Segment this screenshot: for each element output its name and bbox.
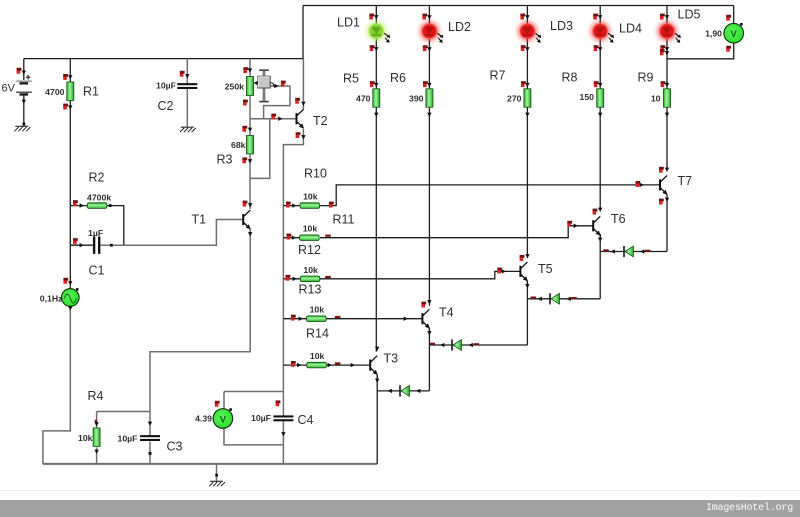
transistor T4 (422, 309, 429, 328)
wire: R2 left lead (70, 205, 87, 207)
wire: pot wiper route (264, 86, 290, 119)
current arrow: LED anode (427, 15, 431, 19)
current arrow: battery - (22, 100, 26, 104)
current arrow: R bottom (427, 113, 431, 117)
terminal marker: R top (423, 81, 428, 87)
current arrow: LD5 node (665, 51, 669, 55)
terminal marker: C4 top (276, 400, 281, 406)
resistor R12 10k (300, 276, 319, 282)
svg-text:10µF: 10µF (251, 413, 271, 423)
current arrow: R bottom (525, 113, 529, 117)
wire: C2 to ground (186, 89, 188, 127)
terminal marker: T2 collector (295, 98, 300, 104)
terminal dash: R14 right (335, 362, 341, 364)
current arrow: T3 emitter (375, 379, 379, 383)
terminal marker: LED anode (660, 14, 665, 20)
resistor R4 10k (93, 428, 100, 446)
svg-text:LD2: LD2 (448, 20, 471, 34)
current arrow: T2 collector (301, 102, 305, 106)
current arrow: T6 base (574, 224, 578, 228)
svg-text:V: V (220, 414, 227, 425)
svg-text:T3: T3 (384, 352, 399, 366)
current arrow: source bottom (68, 306, 72, 310)
junction dot: C3 bottom (149, 452, 152, 455)
current arrow: T2 base (278, 117, 282, 121)
svg-text:250k: 250k (225, 82, 244, 92)
svg-text:10k: 10k (303, 224, 318, 234)
svg-text:68k: 68k (231, 140, 246, 150)
terminal marker: pot bottom (243, 100, 248, 106)
wire: D3 row (527, 298, 600, 300)
LED LD2 (419, 21, 443, 43)
terminal marker: voltmeter top (215, 401, 220, 407)
terminal marker: R1 bottom (63, 104, 68, 110)
current arrow: D2 left (440, 343, 444, 347)
current arrow: LED anode (665, 15, 669, 19)
resistor R2 4700k (87, 203, 106, 209)
transistor T2 symbol (297, 109, 304, 128)
current arrow: D3 right (567, 297, 571, 301)
wire: R4/C3 top link (97, 411, 150, 413)
capacitor C1 plates (93, 237, 101, 254)
svg-text:10: 10 (651, 94, 661, 104)
current arrow: LED cathode (427, 47, 431, 51)
terminal marker: T6 collector (593, 209, 598, 215)
wire: T2 emitter to ladder feed (283, 129, 303, 416)
terminal marker: R1 top (63, 74, 68, 80)
terminal marker: LED cathode (423, 45, 428, 51)
wire: LED anode lead (428, 6, 430, 24)
current arrow: R3 bottom (248, 159, 252, 163)
wire: LED anode rail (303, 5, 734, 7)
wire: R12 to T5 base (320, 271, 520, 278)
svg-text:R13: R13 (299, 283, 322, 297)
LED LD3 (517, 21, 541, 43)
terminal dash: D4 right (645, 250, 651, 252)
terminal marker: T7 collector (659, 167, 664, 173)
wire: T2 collector drop (302, 59, 304, 110)
svg-text:R8: R8 (562, 71, 578, 85)
current arrow: T6 emitter (598, 238, 602, 242)
terminal marker: R14 left (291, 361, 296, 367)
current arrow: R12 left (293, 277, 297, 281)
current arrow: D3 left (538, 297, 542, 301)
svg-text:4.39: 4.39 (195, 414, 212, 424)
wire: C3 top lead (149, 412, 151, 436)
terminal dash: R12 right (325, 276, 331, 278)
terminal marker: LED cathode (594, 45, 599, 51)
wire: R to transistor collector (599, 107, 601, 209)
terminal marker: R top (594, 81, 599, 87)
transistor T1 symbol (243, 210, 250, 229)
wire: C1 left lead (70, 244, 93, 246)
svg-text:T2: T2 (313, 114, 328, 128)
svg-text:10k: 10k (303, 265, 318, 275)
current arrow: R top (525, 83, 529, 87)
resistor R1 4700 (67, 82, 74, 100)
wire: R10 to T7 base (320, 185, 660, 206)
wire: T1 emitter to R4/C3 node (150, 229, 250, 412)
voltmeter circle 1.90 (724, 23, 744, 43)
current arrow: D4 left (611, 249, 615, 253)
wire: R to transistor collector (428, 107, 430, 306)
wire: C1 to T1 base (101, 220, 243, 246)
terminal dash: R13 right (335, 316, 341, 318)
terminal marker: R3 bottom (242, 157, 247, 163)
current arrow: T1 collector (248, 203, 252, 207)
terminal marker: LED anode (520, 14, 525, 20)
terminal marker: R11 left (287, 234, 292, 240)
current arrow: T4 collector (427, 300, 431, 304)
svg-text:R11: R11 (333, 213, 355, 227)
terminal dash: R11 right (325, 235, 331, 237)
current arrow: T3 base (351, 363, 355, 367)
wire: T5 emitter drop (526, 281, 528, 345)
LED LD1 (green) (366, 21, 390, 43)
transistor T7 (660, 176, 667, 195)
LED LD4 (590, 21, 614, 43)
current arrow: D1 right (416, 389, 420, 393)
svg-text:R10: R10 (304, 167, 327, 181)
wire: T2 base (250, 118, 297, 120)
current arrow: R14 left (297, 363, 301, 367)
wire: LED anode lead (666, 6, 668, 24)
terminal marker: voltmeter1 top (726, 15, 731, 21)
wire: R14 left lead (283, 364, 306, 366)
svg-text:R4: R4 (88, 389, 104, 403)
wire: battery to ground (23, 94, 25, 127)
terminal marker: R3 top (242, 126, 247, 132)
svg-text:T1: T1 (192, 213, 207, 227)
terminal marker: R13 left (291, 315, 296, 321)
svg-text:T7: T7 (678, 174, 693, 188)
wire: LED cathode to R (599, 39, 601, 89)
resistor R7 270 (524, 89, 531, 107)
current arrow: source top (68, 281, 72, 285)
capacitor C2 plates (177, 83, 197, 89)
diode D1 (400, 385, 409, 396)
current arrow: T1 emitter (248, 232, 252, 236)
transistor T5 (520, 262, 527, 281)
terminal marker: battery + (17, 68, 22, 74)
svg-text:C1: C1 (89, 264, 105, 278)
current arrow: R top (427, 83, 431, 87)
current arrow: T2 emitter (301, 135, 305, 139)
wire: R14 to T3 base (325, 364, 369, 366)
current arrow: R top (374, 83, 378, 87)
terminal marker: LED anode (422, 14, 427, 20)
terminal marker: LED anode (593, 14, 598, 20)
terminal marker: T1 collector (243, 201, 248, 207)
wire: voltmeter loop top (224, 391, 283, 393)
svg-text:T6: T6 (611, 212, 626, 226)
resistor R5 470 (373, 89, 380, 107)
wire: R11 to T6 base (320, 226, 593, 238)
terminal marker: LED cathode (521, 45, 526, 51)
current arrow: R1 top (68, 75, 72, 79)
current arrow: R bottom (598, 113, 602, 117)
current arrow: T3 collector (375, 347, 379, 351)
resistor R6 390 (426, 89, 433, 107)
svg-text:R14: R14 (306, 327, 329, 341)
svg-text:10k: 10k (78, 433, 93, 443)
wire: +6V rail (24, 58, 303, 60)
wire: base-to-R3-bottom drop (250, 119, 270, 179)
wire: source to bottom rail (43, 306, 70, 464)
current arrow: battery (22, 71, 26, 75)
current arrow: LED anode (374, 15, 378, 19)
current arrow: LED anode (525, 15, 529, 19)
terminal marker: C1 left (73, 238, 78, 244)
terminal marker: T4 collector (421, 302, 426, 308)
svg-text:6V: 6V (2, 83, 16, 95)
transistor T3 (370, 356, 377, 375)
terminal marker: LED cathode (370, 45, 375, 51)
wire: R to transistor collector (375, 107, 377, 351)
svg-text:LD3: LD3 (550, 19, 573, 33)
current arrow: R top (598, 83, 602, 87)
current arrow: T5 base (502, 269, 506, 273)
wire: LED anode lead (599, 6, 601, 24)
capacitor C4 plates (273, 415, 293, 421)
wire: R10 left lead (283, 205, 300, 207)
current arrow: R4 bottom (94, 450, 98, 454)
terminal dash: D2 right (474, 343, 480, 345)
svg-text:R9: R9 (638, 71, 654, 85)
current arrow: LED cathode (665, 47, 669, 51)
source circle (62, 288, 80, 306)
current arrow: T7 base (640, 183, 644, 187)
capacitor C3 plates (140, 435, 160, 441)
terminal marker: R10 left (286, 202, 291, 208)
svg-text:C3: C3 (167, 440, 183, 454)
diode D3 (550, 293, 559, 304)
current arrow: T4 base (404, 317, 408, 321)
wire: pot bottom to base node (249, 96, 251, 119)
current arrow: R10 left (292, 203, 296, 207)
terminal marker: pot wiper (281, 81, 286, 87)
current arrow: LED cathode (374, 47, 378, 51)
wire: D4 row (600, 251, 667, 253)
terminal marker: T7 base (636, 181, 641, 187)
wire: T4 emitter lead (428, 328, 430, 332)
wire: T6 emitter drop (599, 234, 601, 299)
wire: node to R3 (249, 119, 251, 136)
terminal marker: T2 emitter (296, 132, 301, 138)
wire: voltmeter top lead (733, 6, 735, 25)
svg-text:LD4: LD4 (619, 22, 642, 36)
terminal marker: R top (521, 81, 526, 87)
wire: LED cathode to R (526, 39, 528, 89)
svg-text:T5: T5 (538, 262, 553, 276)
current arrow: R13 left (299, 317, 303, 321)
resistor R11 10k (300, 235, 319, 241)
wire: C4 to bottom rail (282, 421, 284, 464)
terminal dash: D4 left (603, 249, 609, 251)
current arrow: LED cathode (598, 47, 602, 51)
svg-text:270: 270 (507, 94, 522, 104)
diode D4 (624, 246, 633, 257)
terminal marker: pot top (243, 67, 248, 73)
svg-text:10k: 10k (310, 351, 325, 361)
wire: R to transistor collector (666, 107, 668, 169)
svg-text:4700k: 4700k (87, 193, 111, 203)
terminal marker: T6 base jog (567, 221, 572, 227)
LED LD5 (657, 21, 681, 43)
current arrow: C3 top (148, 422, 152, 426)
current arrow: T4 emitter (427, 331, 431, 335)
current arrow: C1 left (80, 243, 84, 247)
wire: R2 right to C1 node (106, 206, 123, 246)
junction dot: ground stem (215, 474, 218, 477)
wire: R4 top lead (96, 412, 98, 429)
svg-text:150: 150 (580, 92, 595, 102)
svg-text:390: 390 (409, 94, 424, 104)
terminal marker: voltmeter1 bottom (726, 46, 731, 52)
wiper arrow of P1 (into body) (254, 81, 258, 85)
current arrow: T5 collector (525, 254, 529, 258)
ground symbol: main (209, 481, 225, 486)
svg-text:C2: C2 (158, 99, 174, 113)
current arrow: LED anode (598, 15, 602, 19)
terminal marker: T5 collector (520, 255, 525, 261)
junction dot: battery-ground (23, 123, 26, 126)
terminal marker: LED cathode (660, 45, 665, 51)
wire: LED anode lead (375, 6, 377, 24)
wire: R12 left lead (283, 278, 300, 280)
wire: D2 row (429, 344, 527, 346)
svg-text:C4: C4 (298, 413, 314, 427)
diode D2 (452, 339, 461, 350)
wire: voltmeter bottom to LD5 (667, 43, 734, 59)
svg-text:R7: R7 (490, 69, 506, 83)
wire: LED cathode to R (428, 39, 430, 89)
svg-text:R2: R2 (89, 171, 105, 185)
terminal marker: T7 emitter (659, 199, 664, 205)
current arrow: T5 emitter (525, 284, 529, 288)
wire: voltmeter top lead (223, 392, 225, 409)
wire: bottom rail (43, 463, 377, 465)
wire: LED anode lead (526, 6, 528, 24)
resistor R13 10k (307, 316, 326, 322)
terminal dash: D3 right (571, 297, 577, 299)
svg-text:LD5: LD5 (678, 8, 701, 22)
terminal dot: R4 top (95, 420, 98, 423)
resistor R10 10k (300, 203, 319, 209)
svg-text:R5: R5 (343, 72, 359, 86)
svg-text:0,1Hz: 0,1Hz (40, 294, 63, 304)
current arrow: R4 top (94, 422, 98, 426)
junction dot: C1 right (110, 244, 113, 247)
wire: rail to R1 (69, 59, 71, 82)
svg-text:10µF: 10µF (118, 434, 138, 444)
resistor R9 10 (664, 89, 671, 107)
terminal marker: LD5 node (660, 49, 665, 55)
current arrow: C4 bottom (281, 432, 285, 436)
resistor R14 10k (307, 362, 326, 368)
svg-text:R1: R1 (83, 85, 99, 99)
transistor T6 (593, 216, 600, 235)
ground: C2 (180, 127, 196, 132)
terminal marker: R2 left (73, 200, 78, 206)
terminal marker: T5 base jog (497, 268, 502, 274)
wire: T5 emitter lead (526, 281, 528, 285)
wire: T3 emitter lead (376, 375, 378, 380)
resistor R8 150 (597, 89, 604, 107)
current arrow: D2 right (469, 343, 473, 347)
terminal marker: T2 base (271, 114, 276, 120)
terminal dash: D2 left (430, 343, 436, 345)
terminal marker: LED anode (369, 14, 374, 20)
svg-text:10k: 10k (310, 305, 325, 315)
svg-text:470: 470 (356, 94, 371, 104)
current arrow: T6 collector (598, 208, 602, 212)
wire: battery top lead (23, 59, 25, 80)
resistor R3 68k (247, 136, 254, 154)
wire: T3 emitter to bottom rail (376, 375, 378, 464)
current arrow: R3 top (248, 128, 252, 132)
voltmeter circle 4.39 (213, 408, 233, 428)
svg-text:LD1: LD1 (337, 16, 360, 30)
svg-text:T4: T4 (439, 306, 454, 320)
wire: box left edge (302, 6, 304, 60)
svg-text:1,90: 1,90 (705, 29, 722, 39)
current arrow: R11 left (292, 236, 296, 240)
terminal marker: R top (370, 81, 375, 87)
wire: T7 emitter drop (666, 194, 668, 252)
wire: R13 to T4 base (326, 318, 422, 320)
wire: rail to pot (249, 59, 251, 77)
svg-text:10k: 10k (303, 192, 318, 202)
wire: R to transistor collector (526, 107, 528, 256)
svg-text:R12: R12 (298, 243, 321, 257)
terminal marker: C2 top (180, 71, 185, 77)
wire: C3 bottom lead (149, 442, 151, 464)
terminal marker: R12 left (286, 275, 291, 281)
junction dot: R2 right (109, 204, 112, 207)
wire: LED cathode to R (666, 39, 668, 89)
svg-text:R6: R6 (390, 71, 406, 85)
current arrow: pot top (248, 68, 252, 72)
current arrow: LED cathode (525, 47, 529, 51)
current arrow: T7 emitter (665, 198, 669, 202)
current arrow: C2 (185, 74, 189, 78)
current arrow: R1 bottom (68, 105, 72, 109)
svg-text:4700: 4700 (45, 87, 64, 97)
current arrow: D4 right (640, 249, 644, 253)
terminal marker: R top (661, 81, 666, 87)
terminal marker: R10 right (329, 202, 334, 208)
current arrow: R top (665, 83, 669, 87)
current arrow: R bottom (665, 113, 669, 117)
wire: R4 bottom lead (96, 447, 98, 464)
wiper arrow of P1 (270, 83, 276, 86)
wire: R11 left lead (283, 237, 299, 239)
potentiometer P1 250k (247, 77, 254, 96)
current arrow: T7 collector (665, 168, 669, 172)
wire: D1 row (377, 390, 429, 392)
wire: R3 to T1 collector (249, 154, 251, 210)
wire: R1 to source, R2/C1 taps (69, 100, 71, 289)
terminal marker: source top (63, 278, 68, 284)
current arrow: R bottom (374, 113, 378, 117)
svg-text:1µF: 1µF (88, 228, 103, 238)
svg-text:R3: R3 (217, 153, 233, 167)
battery B1 6V (16, 75, 32, 96)
wire: ground stem (216, 464, 218, 481)
ground: battery (14, 126, 30, 131)
wire: R13 left lead (283, 318, 306, 320)
